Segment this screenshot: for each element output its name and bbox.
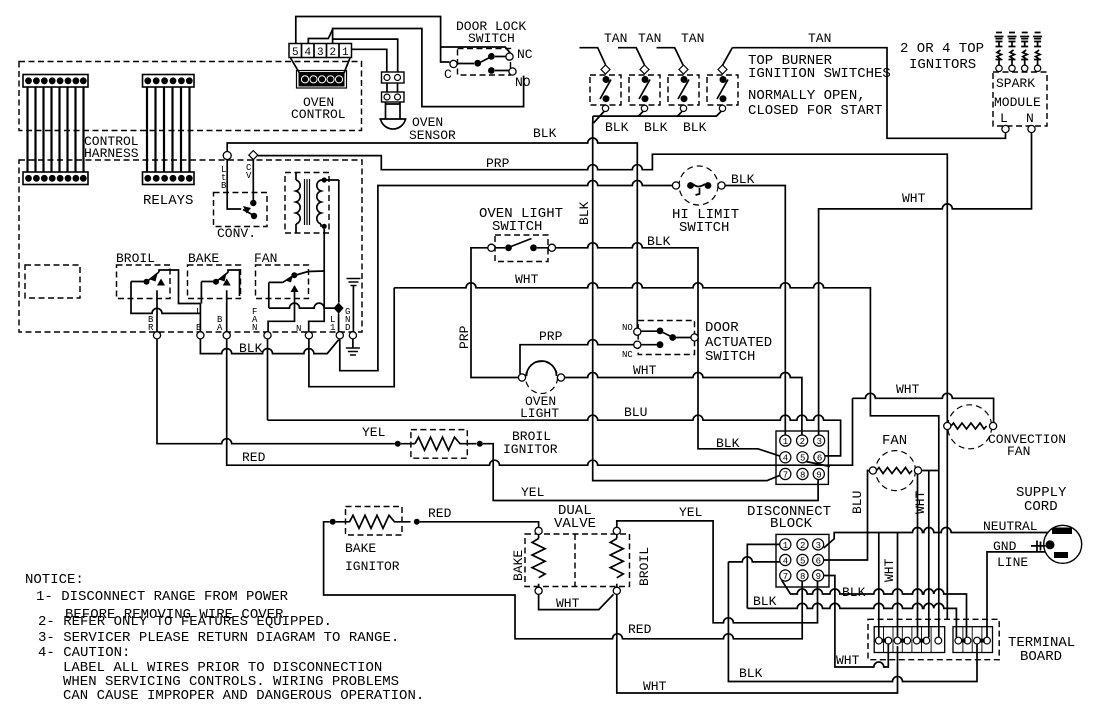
- svg-text:VALVE: VALVE: [554, 516, 596, 532]
- svg-text:NO: NO: [515, 75, 531, 90]
- connector J2 upper (control harness right): [143, 75, 195, 88]
- door lock C terminal: [450, 60, 457, 67]
- oven light switch S2: [488, 235, 556, 262]
- svg-text:3: 3: [817, 437, 822, 447]
- svg-text:4: 4: [305, 47, 312, 59]
- wire LB to L1 (BLK): [200, 339, 338, 354]
- node bake ignitor left: [330, 519, 336, 525]
- connector J1 upper (control harness left): [23, 75, 88, 88]
- wire PRP to door NC: [520, 340, 634, 374]
- svg-text:BLK: BLK: [577, 201, 592, 225]
- svg-text:LINE: LINE: [997, 555, 1028, 570]
- supply cord P2: [1044, 525, 1082, 563]
- svg-text:NC: NC: [622, 350, 633, 360]
- svg-text:9: 9: [816, 572, 821, 582]
- svg-text:HARNESS: HARNESS: [84, 146, 139, 161]
- svg-text:6: 6: [816, 556, 821, 566]
- oven sensor connector lower: [382, 92, 405, 102]
- wire WHT vertical to board T6: [928, 471, 930, 638]
- svg-text:L: L: [196, 307, 201, 317]
- svg-text:B: B: [196, 323, 202, 333]
- svg-text:4: 4: [783, 454, 788, 464]
- svg-text:BLK: BLK: [647, 234, 671, 249]
- svg-text:NOTICE:: NOTICE:: [25, 572, 84, 588]
- svg-text:3- SERVICER PLEASE RETURN DIAG: 3- SERVICER PLEASE RETURN DIAGRAM TO RAN…: [38, 630, 399, 646]
- terminal N: [1028, 125, 1035, 132]
- wire lower BLK bus: [747, 603, 956, 637]
- wire oven light switch left to lamp line: [471, 248, 518, 378]
- terminal N: [305, 332, 312, 339]
- broil valve coil: [610, 527, 623, 594]
- dual valve box: [525, 534, 630, 587]
- wire fan relay pivot to L1 junction: [269, 303, 339, 308]
- terminal board TB1: [868, 619, 999, 659]
- bake valve coil: [532, 527, 545, 594]
- wire broil valve to WHT bottom run: [617, 594, 898, 693]
- door lock NC terminal: [506, 53, 513, 60]
- wire N terminal down to WHT hook: [309, 288, 394, 387]
- svg-text:FAN: FAN: [254, 251, 277, 266]
- svg-text:2: 2: [800, 541, 805, 551]
- spark module U1: [993, 72, 1047, 126]
- svg-text:2 OR 4 TOP: 2 OR 4 TOP: [900, 41, 984, 57]
- svg-text:SWITCH: SWITCH: [468, 31, 515, 46]
- wire bake ignitor left to RED bottom run: [324, 522, 803, 639]
- wire bake ignitor to bake valve: [420, 522, 539, 528]
- svg-text:MODULE: MODULE: [994, 95, 1041, 110]
- svg-text:BLU: BLU: [624, 405, 647, 420]
- svg-text:TAN: TAN: [638, 31, 661, 46]
- wire NEUTRAL: [824, 528, 1048, 549]
- svg-text:CLOSED FOR START: CLOSED FOR START: [748, 103, 882, 119]
- svg-text:WHT: WHT: [515, 272, 539, 287]
- svg-text:WHT: WHT: [882, 558, 897, 582]
- svg-text:NORMALLY OPEN,: NORMALLY OPEN,: [748, 88, 866, 104]
- svg-text:RED: RED: [428, 506, 452, 521]
- svg-text:BLU: BLU: [850, 491, 865, 514]
- svg-text:BLK: BLK: [239, 341, 263, 356]
- hi limit switch S3: [672, 166, 725, 205]
- wire YEL (BR to broil ignitor to block1 pin9): [157, 339, 395, 444]
- svg-text:RELAYS: RELAYS: [143, 193, 193, 209]
- terminal FAN: [264, 332, 271, 339]
- svg-text:RED: RED: [628, 622, 652, 637]
- svg-text:5: 5: [292, 47, 299, 59]
- ignitor E1: [995, 33, 1004, 72]
- svg-text:WHT: WHT: [896, 382, 920, 397]
- terminal GND: [349, 332, 356, 339]
- harness wires J1: [28, 87, 84, 172]
- svg-text:NEUTRAL: NEUTRAL: [983, 519, 1038, 534]
- terminal LTB on relay box: [223, 152, 231, 160]
- wire YEL broil valve to block2 pin9: [617, 521, 818, 623]
- wire GND stub: [1031, 541, 1046, 552]
- control box (upper dashed enclosure): [19, 62, 362, 131]
- svg-text:BLK: BLK: [605, 120, 629, 135]
- svg-text:5: 5: [800, 454, 805, 464]
- svg-text:PRP: PRP: [486, 156, 510, 171]
- svg-text:SENSOR: SENSOR: [409, 128, 456, 143]
- svg-text:FAN: FAN: [882, 433, 907, 449]
- wire convection fan left down: [946, 430, 948, 620]
- svg-text:PRP: PRP: [457, 325, 472, 349]
- wire WHT to convection fan: [853, 393, 994, 422]
- chassis ground (top): [347, 279, 361, 332]
- svg-text:CONTROL: CONTROL: [291, 107, 346, 122]
- svg-text:SWITCH: SWITCH: [705, 349, 755, 365]
- svg-text:BLK: BLK: [533, 126, 557, 141]
- oven sensor leads: [387, 83, 398, 92]
- wire transformer secondary bottom to N terminal: [309, 229, 325, 332]
- svg-text:6: 6: [817, 454, 822, 464]
- wire neutral tee to board T3: [897, 533, 899, 638]
- wire block2 pin1 feed: [747, 544, 779, 608]
- wire lamp to block1 pin2 (WHT): [565, 373, 802, 436]
- svg-text:TAN: TAN: [681, 31, 704, 46]
- node YEL-ignitor right: [477, 441, 483, 447]
- wire N to WHT run: [819, 133, 1032, 437]
- svg-text:3: 3: [816, 541, 821, 551]
- svg-text:A: A: [217, 323, 223, 333]
- wire WHT vertical to board T7: [938, 471, 940, 638]
- connector J2 lower: [143, 172, 195, 185]
- wire RED (BA to block1 area): [227, 339, 853, 465]
- door lock switch box: [458, 49, 511, 76]
- svg-text:YEL: YEL: [362, 425, 385, 440]
- svg-text:BLK: BLK: [842, 585, 866, 600]
- svg-text:YEL: YEL: [679, 505, 702, 520]
- oven sensor connector upper: [382, 72, 405, 83]
- relay box (lower dashed enclosure): [19, 160, 362, 332]
- terminal L1: [336, 332, 343, 339]
- svg-text:D: D: [345, 323, 350, 333]
- svg-text:5: 5: [800, 556, 805, 566]
- wire WHT valve jumper: [539, 594, 614, 609]
- svg-text:WHT: WHT: [902, 191, 926, 206]
- ignition switch SW1: [580, 48, 622, 123]
- svg-text:2- REFER ONLY TO FEATURES EQUI: 2- REFER ONLY TO FEATURES EQUIPPED.: [38, 614, 332, 630]
- svg-text:PRP: PRP: [539, 329, 563, 344]
- fan motor M1: [869, 451, 921, 491]
- terminal CV on relay box: [249, 151, 258, 160]
- harness wires J2: [147, 87, 190, 172]
- svg-text:BAKE: BAKE: [511, 550, 526, 581]
- wire fan right down to board T5: [917, 474, 919, 637]
- spare connector (empty dashed box): [25, 265, 80, 298]
- svg-text:TAN: TAN: [808, 31, 831, 46]
- terminal LB: [197, 332, 204, 339]
- wire YEL to block1 pin9: [483, 444, 818, 501]
- svg-text:1: 1: [342, 47, 349, 59]
- oven control connector (5 pins): [297, 71, 347, 89]
- door actuated switch S4: [634, 321, 698, 355]
- svg-text:R: R: [148, 323, 154, 333]
- ignition switch SW2: [618, 48, 660, 117]
- conv relay K4: [214, 160, 268, 227]
- svg-text:WHT: WHT: [913, 490, 928, 514]
- wire TAN bus to spark module L: [732, 48, 1005, 139]
- main vertical BLK bus: [593, 124, 780, 481]
- svg-text:FAN: FAN: [1007, 444, 1030, 459]
- ignition switch SW4: [707, 48, 738, 117]
- relay K3 FAN: [254, 251, 324, 332]
- node YEL-ignitor left: [395, 441, 401, 447]
- oven sensor bulb: [379, 102, 406, 129]
- svg-text:NO: NO: [622, 323, 633, 333]
- wire PRP line B (CV to convection fan feed): [258, 154, 948, 422]
- wire pin5 to door lock C: [296, 17, 450, 63]
- convection fan M2: [944, 405, 997, 449]
- svg-text:RED: RED: [242, 450, 266, 465]
- relay K1 BROIL: [116, 251, 200, 332]
- svg-text:1: 1: [783, 541, 788, 551]
- connector J1 lower: [23, 172, 88, 185]
- transformer T1: [285, 173, 339, 234]
- svg-text:9: 9: [816, 470, 821, 480]
- svg-text:4- CAUTION:: 4- CAUTION:: [38, 645, 130, 661]
- svg-text:BLK: BLK: [739, 666, 763, 681]
- connector P1 strip 5 4 3 2 1: [289, 44, 352, 60]
- svg-text:B: B: [221, 181, 227, 191]
- wire ignition switch bottoms BLK bus: [593, 116, 717, 124]
- wire pin4 riser: [308, 30, 332, 44]
- wire LINE to board T4: [987, 552, 1045, 638]
- wire block1 pin5 to RED junction: [806, 462, 830, 467]
- svg-text:SWITCH: SWITCH: [492, 219, 542, 235]
- ground symbol (below GND): [346, 339, 360, 355]
- svg-text:BAKE: BAKE: [188, 251, 219, 266]
- relay K2 BAKE: [188, 251, 241, 332]
- svg-text:SPARK: SPARK: [996, 76, 1035, 91]
- svg-text:BLK: BLK: [716, 436, 740, 451]
- svg-text:4: 4: [783, 556, 788, 566]
- door lock NO terminal: [509, 68, 516, 75]
- svg-text:DOOR: DOOR: [705, 320, 739, 336]
- wire hi-limit to block1 pin1: [725, 186, 785, 436]
- oven connector block A (3x3 numbered): [776, 431, 828, 484]
- wire NC to junction: [441, 47, 511, 53]
- svg-text:1: 1: [783, 437, 788, 447]
- wire BLK line D (oven light switch to block1 pin4): [556, 243, 780, 456]
- svg-text:BROIL: BROIL: [637, 547, 652, 586]
- svg-text:BLK: BLK: [644, 120, 668, 135]
- svg-text:7: 7: [783, 470, 788, 480]
- wire L1 junction to terminal: [338, 314, 340, 332]
- svg-text:BLK: BLK: [753, 594, 777, 609]
- svg-text:N: N: [252, 323, 257, 333]
- svg-text:BOARD: BOARD: [1020, 649, 1062, 665]
- wire pin2 to door lock NO: [333, 29, 524, 107]
- svg-text:BLK: BLK: [731, 172, 755, 187]
- svg-text:WHT: WHT: [836, 653, 860, 668]
- svg-text:CORD: CORD: [1024, 499, 1058, 515]
- wire block2 pin4 feed: [728, 557, 779, 562]
- svg-text:L: L: [1000, 111, 1008, 126]
- terminal L: [1002, 125, 1009, 132]
- svg-text:IGNITOR: IGNITOR: [345, 559, 400, 574]
- svg-text:CONV.: CONV.: [217, 226, 256, 241]
- wire WHT main line: [394, 283, 939, 471]
- wire block2 pin7 to upper BLK bus: [782, 580, 967, 637]
- oven light lamp DS1: [518, 361, 564, 394]
- svg-text:NC: NC: [517, 47, 533, 62]
- SECTIONS INSERTED BELOW: [19, 62, 362, 333]
- svg-text:IGNITORS: IGNITORS: [909, 57, 976, 73]
- svg-text:WHT: WHT: [643, 679, 667, 694]
- wire block2 pin9 jog to terminal board: [824, 576, 889, 668]
- svg-text:2: 2: [800, 437, 805, 447]
- wire block2 pin4 down to BLK bottom run: [728, 562, 977, 682]
- svg-text:N: N: [296, 324, 301, 334]
- svg-text:7: 7: [783, 572, 788, 582]
- svg-text:WHT: WHT: [556, 596, 580, 611]
- terminal BR: [153, 332, 160, 339]
- ignitor E4: [1033, 33, 1042, 72]
- svg-text:YEL: YEL: [521, 485, 544, 500]
- wire fan left to block2 pin6 (BLU): [824, 471, 870, 561]
- svg-text:IGNITION SWITCHES: IGNITION SWITCHES: [748, 66, 891, 82]
- door lock contacts: [457, 53, 509, 74]
- svg-text:8: 8: [800, 572, 805, 582]
- svg-text:3: 3: [317, 47, 324, 59]
- svg-text:LIGHT: LIGHT: [520, 406, 559, 421]
- svg-text:8: 8: [800, 470, 805, 480]
- wire pin1 to oven sensor: [352, 49, 387, 72]
- svg-text:BLK: BLK: [683, 120, 707, 135]
- node bake ignitor right: [414, 519, 420, 525]
- wire BLU line (fan feed): [268, 415, 841, 456]
- disconnect block B (3x3 numbered): [776, 534, 829, 587]
- bake ignitor R1: [336, 507, 411, 536]
- svg-text:BROIL: BROIL: [116, 251, 155, 266]
- ignitor E2: [1008, 33, 1017, 72]
- node L1 junction: [334, 303, 344, 314]
- svg-text:TAN: TAN: [604, 31, 627, 46]
- wire BLK line A (LTB to door actuated NO): [227, 138, 637, 328]
- svg-text:BLOCK: BLOCK: [770, 516, 813, 532]
- svg-text:1- DISCONNECT RANGE FROM POWER: 1- DISCONNECT RANGE FROM POWER: [36, 589, 289, 605]
- svg-text:V: V: [246, 171, 252, 181]
- svg-text:CAN CAUSE IMPROPER AND DANGERO: CAN CAUSE IMPROPER AND DANGEROUS OPERATI…: [63, 688, 424, 704]
- terminal BA: [223, 332, 230, 339]
- svg-text:IGNITOR: IGNITOR: [503, 442, 558, 457]
- svg-text:1: 1: [330, 323, 335, 333]
- broil ignitor R2: [401, 430, 477, 459]
- svg-text:2: 2: [330, 47, 337, 59]
- wire transformer secondary top to L1 junction: [338, 180, 340, 303]
- trapezoid funnel to oven control connector: [291, 58, 351, 73]
- ignition switch SW3: [657, 48, 700, 117]
- wire fan right to WHT vertical: [922, 470, 939, 472]
- svg-text:N: N: [1026, 111, 1034, 126]
- svg-text:WHT: WHT: [633, 363, 657, 378]
- svg-text:SWITCH: SWITCH: [679, 220, 729, 236]
- svg-text:C: C: [444, 67, 452, 82]
- svg-text:BAKE: BAKE: [345, 541, 376, 556]
- wire BLK line C (L1 hook to hi-limit to block): [340, 181, 673, 371]
- wire neutral tee to board T1: [878, 533, 880, 638]
- ignitor E3: [1020, 33, 1029, 72]
- wire pin4 top to oven sensor right pin: [333, 39, 398, 72]
- wire FAN terminal down to BLU: [267, 339, 269, 420]
